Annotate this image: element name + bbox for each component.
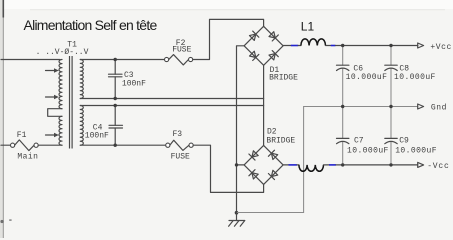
node C3 bottom [114, 97, 117, 100]
wire D1 left to ground [237, 46, 245, 213]
node +Vcc C6 [341, 44, 344, 47]
svg-text:Alimentation Self en tête: Alimentation Self en tête [24, 17, 158, 33]
transformer T1 [36, 40, 89, 148]
fuse F3 [166, 130, 194, 162]
svg-text:100nF: 100nF [122, 80, 146, 89]
capacitor C7 [337, 107, 389, 165]
svg-text:Gnd: Gnd [431, 104, 447, 113]
svg-text:10.000uF: 10.000uF [346, 73, 388, 82]
bridge D1 [244, 26, 298, 82]
wire center tap upper [80, 98, 263, 100]
svg-text:10.000uF: 10.000uF [395, 147, 437, 156]
ground [229, 213, 245, 227]
wire secondary top [80, 59, 164, 61]
capacitor C9 [385, 107, 437, 165]
node D2 left [235, 163, 238, 166]
fuse F1 [11, 131, 39, 161]
svg-text:F3: F3 [173, 130, 183, 139]
svg-text:+Vcc: +Vcc [430, 43, 451, 52]
svg-text:D2: D2 [267, 128, 277, 137]
svg-text:10.000uF: 10.000uF [394, 73, 436, 82]
node +Vcc C8 [389, 44, 392, 47]
capacitor C6 [337, 46, 388, 107]
wire ground return [237, 107, 304, 213]
svg-text:BRIDGE: BRIDGE [266, 137, 295, 146]
capacitor C3 [109, 60, 147, 99]
wire F2 to D1 top [193, 19, 264, 59]
svg-text:C8: C8 [399, 64, 409, 73]
wire +Vcc rail [336, 45, 418, 47]
svg-text:C9: C9 [399, 136, 409, 145]
node Gnd C8 [389, 105, 392, 108]
output -Vcc [418, 162, 450, 171]
node C3 top [114, 58, 117, 61]
inductor L2 [283, 165, 336, 171]
wire Gnd rail [304, 106, 418, 108]
svg-text:L1: L1 [301, 19, 315, 33]
fuse F2 [165, 39, 193, 65]
svg-text:FUSE: FUSE [171, 153, 190, 162]
svg-text:. ..V-Ø-..V: . ..V-Ø-..V [36, 48, 89, 57]
capacitor C8 [385, 46, 436, 107]
inductor L1 [283, 19, 335, 45]
wire center tap lower [80, 105, 263, 107]
wire D2 left stub [237, 164, 245, 166]
node C4 top [114, 104, 117, 107]
node ground junction [235, 211, 239, 215]
wire secondary bottom [80, 144, 165, 146]
svg-text:BRIDGE: BRIDGE [269, 73, 298, 82]
wire -Vcc rail [336, 164, 418, 166]
wire F1 to T1 [38, 144, 62, 146]
svg-text:FUSE: FUSE [172, 46, 191, 55]
output +Vcc [418, 43, 452, 52]
capacitor C4 [85, 106, 123, 146]
svg-text:10.000uF: 10.000uF [347, 147, 389, 156]
node -Vcc C7 [341, 163, 344, 166]
svg-text:Main: Main [17, 152, 38, 161]
wire mains bottom stub [1, 144, 10, 146]
svg-text:-Vcc: -Vcc [427, 162, 449, 171]
svg-text:100nF: 100nF [85, 131, 109, 140]
svg-text:F1: F1 [17, 131, 27, 140]
bridge D2 [244, 128, 295, 185]
node C4 bottom [114, 144, 117, 147]
output Gnd [418, 104, 447, 113]
node -Vcc C9 [389, 163, 392, 166]
svg-text:C6: C6 [353, 64, 363, 73]
wire F3 to D2 bottom [193, 145, 263, 192]
wire mains top [1, 59, 60, 61]
node Gnd C6 [341, 105, 344, 108]
wire D1 bottom to D2 top [263, 66, 265, 146]
svg-text:C7: C7 [354, 136, 364, 145]
